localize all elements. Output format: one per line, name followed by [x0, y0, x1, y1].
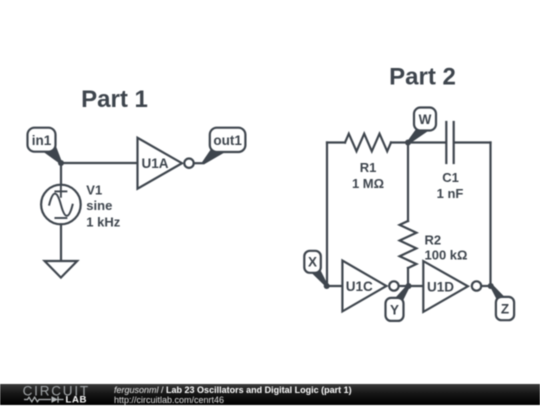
svg-text:LAB: LAB — [66, 394, 88, 405]
svg-text:Part 2: Part 2 — [389, 64, 456, 91]
wire X to U1C — [327, 285, 343, 287]
resistor R1 — [345, 134, 391, 152]
svg-text:in1: in1 — [32, 133, 52, 148]
wire R2 to Y junction — [407, 268, 409, 286]
svg-text:Part 1: Part 1 — [81, 86, 148, 113]
wire U1C out to junction Y — [399, 285, 409, 287]
node X — [304, 251, 328, 287]
node W — [407, 108, 436, 144]
circuitlab logo — [0, 384, 100, 405]
node in1 — [28, 128, 63, 164]
node Y — [386, 285, 410, 321]
label R1 1 MOhm — [352, 160, 384, 191]
wire in1 to V1 — [60, 163, 62, 185]
svg-text:V1: V1 — [86, 183, 102, 198]
capacitor C1 — [446, 122, 453, 163]
wire in1 to U1A input — [61, 162, 138, 164]
junction X — [324, 283, 330, 289]
svg-text:1 kHz: 1 kHz — [86, 215, 120, 230]
junction in1 — [58, 160, 64, 166]
footer text — [114, 385, 352, 405]
ground — [45, 261, 78, 278]
wire left vertical — [326, 143, 328, 287]
wire V1 to ground — [60, 224, 62, 261]
junction Z — [488, 283, 494, 289]
junction W — [405, 140, 411, 146]
svg-text:Z: Z — [501, 302, 509, 317]
inverter U1C — [342, 261, 398, 312]
svg-text:out1: out1 — [213, 133, 242, 148]
label C1 1 nF — [437, 170, 464, 201]
svg-text:1 MΩ: 1 MΩ — [352, 176, 384, 191]
wire R1 to W — [391, 141, 445, 143]
node Z — [490, 285, 514, 320]
svg-text:U1D: U1D — [427, 279, 454, 294]
svg-text:Y: Y — [390, 303, 399, 318]
voltage source V1 — [41, 185, 81, 225]
wire right vertical — [489, 143, 491, 287]
wire U1D out to junction Z — [481, 285, 491, 287]
svg-text:W: W — [419, 112, 432, 127]
wire C1 to right corner — [455, 141, 491, 143]
footer bar — [0, 384, 540, 405]
svg-text:X: X — [308, 255, 317, 270]
label V1 sine 1 kHz — [86, 183, 120, 230]
wire W to R2 — [407, 143, 409, 222]
svg-text:R1: R1 — [360, 160, 377, 175]
svg-text:100 kΩ: 100 kΩ — [425, 247, 468, 262]
svg-text:U1C: U1C — [346, 279, 373, 294]
svg-text:sine: sine — [86, 198, 112, 213]
svg-text:C1: C1 — [442, 170, 459, 185]
junction Y — [406, 283, 412, 289]
inverter U1D — [423, 261, 481, 312]
wire Y to U1D — [409, 285, 424, 287]
svg-text:R2: R2 — [425, 233, 442, 248]
node out1 — [202, 128, 245, 165]
inverter U1A — [138, 138, 194, 189]
svg-text:1 nF: 1 nF — [437, 186, 464, 201]
resistor R2 — [400, 221, 417, 268]
wire U1A output — [194, 162, 203, 164]
svg-text:U1A: U1A — [142, 156, 169, 171]
label R2 100 kOhm — [425, 233, 468, 263]
wire top left segment — [327, 141, 345, 143]
